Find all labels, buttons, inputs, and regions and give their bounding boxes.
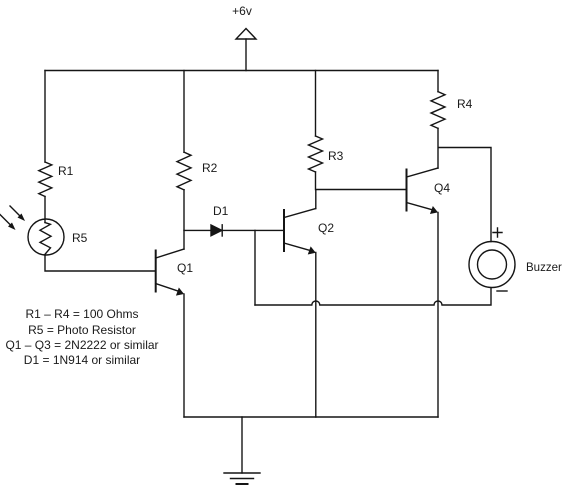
wire R2 bottom to Q1 collector	[183, 190, 185, 249]
wire R4 bottom to buzzer top and Q4 collector	[438, 128, 491, 241]
svg-text:R1 – R4 = 100 Ohms: R1 – R4 = 100 Ohms	[25, 307, 138, 321]
wire bottom rail	[184, 416, 438, 418]
wire Q2 emitter down to bottom rail	[315, 253, 317, 418]
wire D1 anode	[184, 229, 211, 231]
buzzer	[469, 242, 515, 288]
wire left branch from rail to R1	[44, 71, 46, 163]
svg-text:+6v: +6v	[232, 4, 252, 18]
svg-text:R2: R2	[202, 161, 218, 175]
svg-text:R4: R4	[457, 97, 473, 111]
svg-text:R3: R3	[328, 149, 344, 163]
light arrow 2	[0, 215, 16, 231]
svg-text:Q4: Q4	[434, 181, 450, 195]
transistor Q2	[284, 209, 316, 255]
wire junction down from D1 line	[254, 230, 256, 305]
resistor R1	[39, 162, 52, 197]
wire D1 cathode to Q2 base	[222, 229, 284, 231]
power supply +6v symbol	[236, 29, 256, 71]
ground	[224, 417, 260, 484]
resistor R4	[431, 92, 445, 129]
svg-text:Buzzer: Buzzer	[526, 262, 562, 274]
wire R3 branch from rail	[315, 71, 317, 137]
transistor Q4	[407, 168, 439, 214]
transistor Q1	[156, 249, 184, 296]
resistor R3	[309, 136, 323, 172]
wire R1 to R5	[44, 197, 46, 223]
buzzer minus terminal	[497, 290, 507, 292]
wire bottom horizontal with hops to buzzer minus	[255, 288, 491, 305]
svg-text:D1: D1	[213, 204, 229, 218]
wire top rail	[45, 70, 438, 72]
resistor R2	[177, 152, 191, 190]
light arrow 1	[10, 206, 25, 221]
svg-text:Q1 – Q3 = 2N2222 or similar: Q1 – Q3 = 2N2222 or similar	[5, 338, 158, 352]
svg-text:R1: R1	[58, 164, 74, 178]
svg-text:Q1: Q1	[177, 261, 193, 275]
svg-text:Q2: Q2	[318, 221, 334, 235]
diode D1	[211, 225, 222, 236]
buzzer plus terminal	[493, 228, 502, 237]
wire rail right end down to R4	[437, 71, 439, 92]
wire R5 bottom to Q1 base	[45, 255, 156, 271]
svg-text:R5 = Photo Resistor: R5 = Photo Resistor	[28, 323, 136, 337]
svg-text:R5: R5	[72, 231, 88, 245]
wire Q4 emitter down to bottom rail	[437, 212, 439, 417]
photoresistor R5	[28, 219, 64, 255]
wire R2 branch from rail	[183, 71, 185, 153]
svg-text:D1 = 1N914 or similar: D1 = 1N914 or similar	[24, 353, 140, 367]
wire Q1 emitter down to bottom rail	[183, 294, 185, 417]
wire R3 bottom to Q4 base and Q2 collector	[316, 172, 407, 209]
